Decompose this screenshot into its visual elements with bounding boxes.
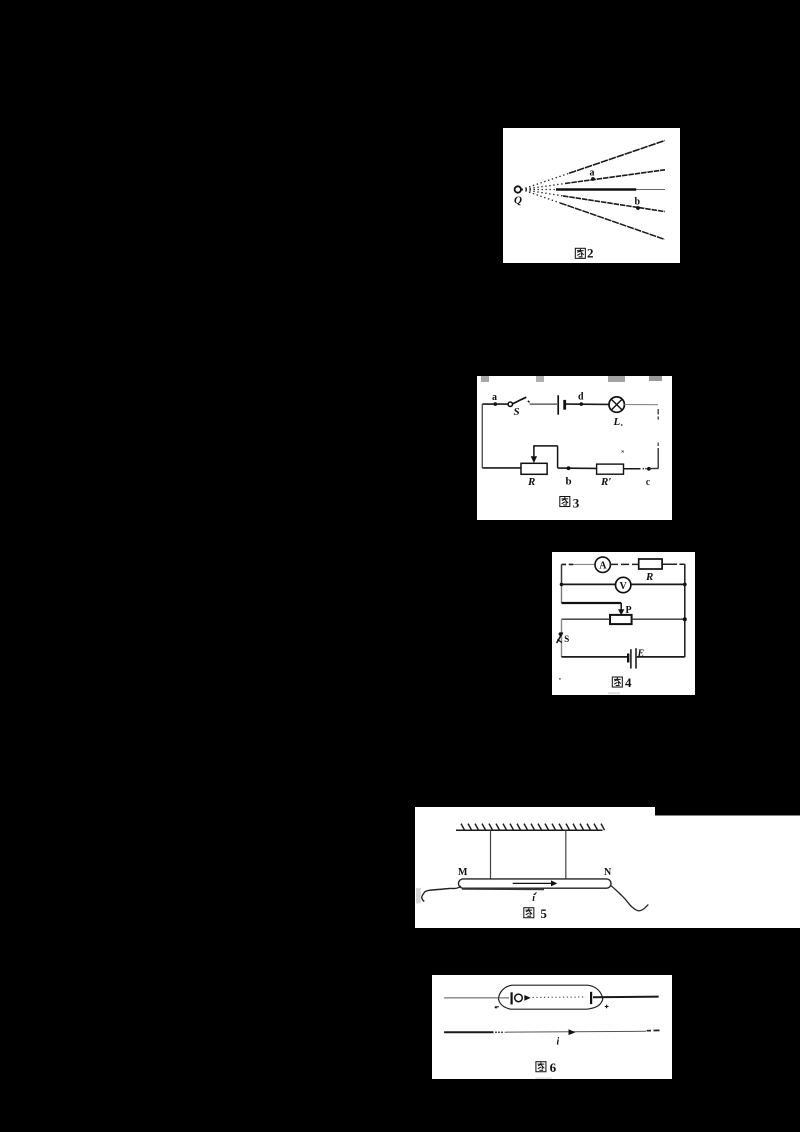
wire switch to battery: [530, 403, 558, 405]
battery long plate: [557, 395, 559, 415]
wire lamp to right: [624, 404, 658, 406]
bottom wire left: [482, 467, 521, 469]
node c: [647, 467, 651, 471]
field line 3 thick segment: [556, 188, 636, 191]
figure box 图3: [477, 376, 672, 520]
caption glyph 图: [536, 1062, 546, 1072]
wiper right drop wire: [557, 446, 559, 468]
wire dots: [643, 468, 645, 470]
svg-text:R′: R′: [600, 476, 611, 488]
field line 1: [569, 141, 665, 174]
resistor R2 body: [597, 464, 624, 474]
svg-text:R: R: [527, 476, 535, 488]
wire R to corner: [662, 563, 685, 565]
wiper arrowhead: [618, 609, 624, 615]
node b: [567, 466, 571, 470]
plus mark: [605, 1005, 609, 1009]
caption glyph 图: [612, 677, 622, 687]
lamp L cross: [611, 399, 622, 410]
top wire dashes left: [562, 563, 574, 565]
left vertical wire: [481, 404, 483, 468]
svg-text:R: R: [645, 571, 653, 583]
node left V: [560, 583, 564, 587]
scan smudge: [536, 376, 544, 382]
wire battery to lamp: [566, 403, 609, 405]
potentiometer body: [610, 615, 632, 624]
current arrowhead: [551, 880, 557, 886]
right wire dash 2: [657, 417, 659, 420]
scan smudge: [481, 376, 489, 382]
svg-text:3: 3: [573, 495, 580, 510]
lamp L circle: [609, 397, 624, 412]
field line 2 dotted part: [522, 184, 566, 190]
svg-text:a: a: [590, 168, 595, 179]
svg-text:A: A: [599, 561, 607, 572]
wire R to b: [558, 467, 597, 469]
black notch top right: [655, 807, 800, 816]
svg-text:Q: Q: [514, 195, 522, 207]
svg-text:5: 5: [540, 906, 547, 921]
node d: [580, 402, 584, 406]
right vertical wire: [684, 564, 686, 657]
field line 5 dotted part: [522, 190, 561, 203]
node right V: [683, 583, 687, 587]
svg-text:V: V: [620, 581, 628, 592]
wire left thin: [444, 997, 509, 999]
svg-text:i: i: [557, 1037, 560, 1048]
svg-text:2: 2: [587, 245, 594, 260]
switch S blob: [559, 632, 563, 636]
left vertical wire upper: [561, 564, 563, 584]
gray blob left edge: [416, 888, 421, 904]
pointer arrowhead: [524, 995, 530, 1001]
right wire dash 1: [657, 409, 659, 415]
svg-text:c: c: [646, 477, 651, 488]
right wire dash 3: [657, 443, 659, 447]
left lead wire: [422, 886, 461, 902]
field line 4: [563, 196, 665, 212]
battery short plate: [563, 400, 566, 410]
field line 2: [565, 170, 665, 184]
node right pot: [683, 617, 687, 621]
minus mark: [495, 1007, 499, 1009]
ceiling hatches: [461, 824, 605, 831]
battery long plate 2: [635, 648, 637, 668]
string right: [565, 830, 567, 879]
bottom wire arrowhead: [569, 1029, 576, 1035]
field line 5: [560, 203, 665, 240]
wire R2 to c: [624, 468, 641, 470]
caption smudge: [608, 692, 620, 694]
string left: [490, 830, 492, 879]
voltmeter V: [616, 577, 631, 592]
switch S tip dash: [528, 401, 530, 403]
right lead wire: [611, 886, 649, 911]
svg-text:6: 6: [550, 1060, 557, 1075]
figure box 图5: [415, 807, 800, 928]
switch S contact circle: [508, 402, 512, 406]
rod MN: [459, 879, 612, 888]
top wire dashes middle: [610, 563, 638, 565]
pot branch wire right: [632, 618, 685, 620]
battery short plate: [627, 654, 629, 663]
dotted wire inside: [533, 996, 586, 998]
svg-text:S: S: [564, 634, 569, 644]
wiper vertical line: [533, 445, 535, 457]
current arrow: [513, 882, 552, 884]
wiper horizontal wire: [534, 445, 558, 447]
pointer circle: [515, 994, 523, 1002]
svg-text:d: d: [578, 392, 584, 403]
wire right thick: [593, 996, 659, 999]
bottom wire right: [637, 656, 685, 658]
rheostat R body: [521, 463, 547, 474]
point a dot: [591, 177, 595, 181]
ceiling line: [456, 829, 603, 831]
wiper arrowhead: [531, 456, 537, 463]
right wire lower: [657, 448, 659, 468]
terminal bar right: [590, 992, 592, 1004]
svg-text:M: M: [458, 867, 468, 878]
left vertical wire lower: [561, 619, 563, 657]
caption glyph 图: [575, 248, 585, 258]
switch S lever: [513, 397, 527, 404]
field line 4 dotted part: [522, 190, 564, 196]
svg-text:S: S: [514, 406, 520, 418]
svg-text:4: 4: [625, 675, 632, 690]
voltmeter branch wire: [562, 583, 685, 585]
speck: [559, 678, 561, 680]
svg-text:N: N: [604, 867, 612, 878]
point b dot: [636, 206, 640, 210]
svg-text:L: L: [613, 416, 621, 428]
switch S lever: [557, 633, 563, 644]
scan smudge: [649, 376, 662, 381]
ammeter A: [595, 557, 610, 572]
svg-text:b: b: [566, 476, 572, 488]
wire top left: [482, 403, 508, 405]
point charge Q: [515, 186, 521, 192]
node a: [494, 402, 498, 406]
bottom smudge: [536, 1077, 553, 1079]
bottom wire thin part: [505, 1030, 646, 1033]
wire dots: [645, 468, 647, 470]
pot branch wire left: [562, 618, 611, 620]
field line 3 dotted part: [522, 189, 557, 191]
wire c to right: [649, 467, 659, 469]
bottom wire left: [562, 656, 628, 658]
switch S foot: [557, 640, 561, 643]
battery long plate 1: [630, 649, 632, 668]
svg-text:b: b: [635, 197, 641, 208]
field line 1 dotted part: [522, 173, 570, 189]
resistor R body: [639, 559, 662, 569]
svg-text:a: a: [492, 392, 497, 403]
wiper arrow line: [620, 603, 622, 611]
figure box 图4: [552, 552, 695, 695]
scan smudge: [608, 376, 625, 382]
galvanometer capsule: [498, 985, 602, 1009]
label L speck: [621, 424, 623, 426]
svg-text:E: E: [637, 649, 645, 660]
figure box 图2: [503, 128, 680, 263]
bottom wire dots: [495, 1031, 497, 1033]
rod bottom smudge: [462, 888, 544, 890]
bottom wire end dashes: [647, 1029, 660, 1031]
speck mark: [622, 451, 624, 453]
field line 3 thin segment: [636, 189, 665, 191]
bottom wire thick part: [444, 1031, 493, 1033]
figure box 图6: [432, 975, 672, 1079]
terminal bar left: [511, 992, 513, 1004]
wiper feed wire: [562, 602, 622, 604]
caption glyph 图: [560, 497, 570, 507]
caption glyph 图: [524, 908, 534, 918]
